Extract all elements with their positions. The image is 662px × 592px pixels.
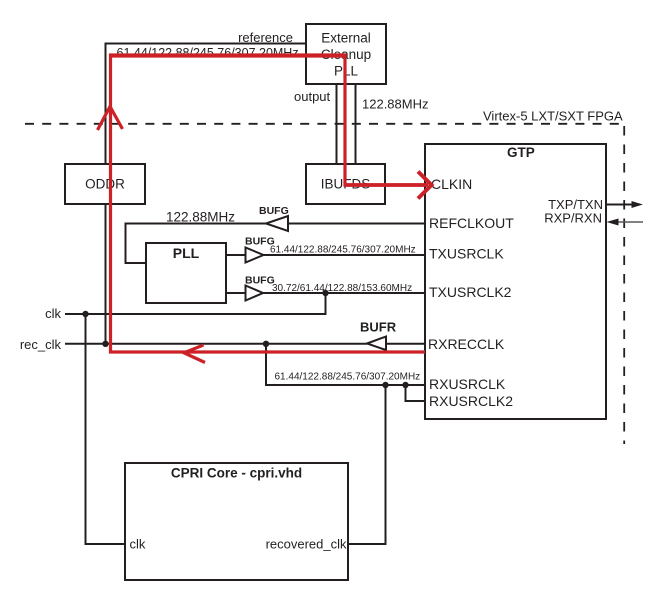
svg-text:CPRI Core - cpri.vhd: CPRI Core - cpri.vhd <box>171 466 302 481</box>
svg-text:clk: clk <box>130 537 146 552</box>
svg-text:ODDR: ODDR <box>85 177 125 192</box>
svg-text:PLL: PLL <box>173 245 200 261</box>
svg-text:recovered_clk: recovered_clk <box>266 537 347 552</box>
svg-text:Virtex-5 LXT/SXT FPGA: Virtex-5 LXT/SXT FPGA <box>483 109 623 124</box>
svg-text:External: External <box>321 31 371 46</box>
svg-text:122.88MHz: 122.88MHz <box>166 210 235 225</box>
svg-text:61.44/122.88/245.76/307.20MHz: 61.44/122.88/245.76/307.20MHz <box>275 372 421 383</box>
svg-text:reference: reference <box>238 30 293 45</box>
svg-text:BUFR: BUFR <box>360 320 397 335</box>
svg-text:RXRECCLK: RXRECCLK <box>428 336 505 352</box>
svg-text:30.72/61.44/122.88/153.60MHz: 30.72/61.44/122.88/153.60MHz <box>272 283 412 294</box>
svg-text:122.88MHz: 122.88MHz <box>362 97 428 112</box>
svg-text:REFCLKOUT: REFCLKOUT <box>429 215 514 231</box>
svg-text:61.44/122.88/245.76/307.20MHz: 61.44/122.88/245.76/307.20MHz <box>270 245 416 256</box>
svg-text:61.44/122.88/245.76/307.20MHz: 61.44/122.88/245.76/307.20MHz <box>117 46 299 60</box>
svg-text:output: output <box>294 89 331 104</box>
svg-text:TXUSRCLK: TXUSRCLK <box>429 246 504 262</box>
svg-text:RXP/RXN: RXP/RXN <box>544 211 602 226</box>
svg-text:GTP: GTP <box>507 145 535 160</box>
svg-text:RXUSRCLK: RXUSRCLK <box>429 376 506 392</box>
svg-text:CLKIN: CLKIN <box>431 176 472 192</box>
svg-text:RXUSRCLK2: RXUSRCLK2 <box>429 393 513 409</box>
svg-text:TXUSRCLK2: TXUSRCLK2 <box>429 284 512 300</box>
svg-text:rec_clk: rec_clk <box>20 337 62 352</box>
svg-text:BUFG: BUFG <box>245 275 275 287</box>
svg-text:clk: clk <box>45 306 61 321</box>
svg-text:BUFG: BUFG <box>259 205 289 217</box>
